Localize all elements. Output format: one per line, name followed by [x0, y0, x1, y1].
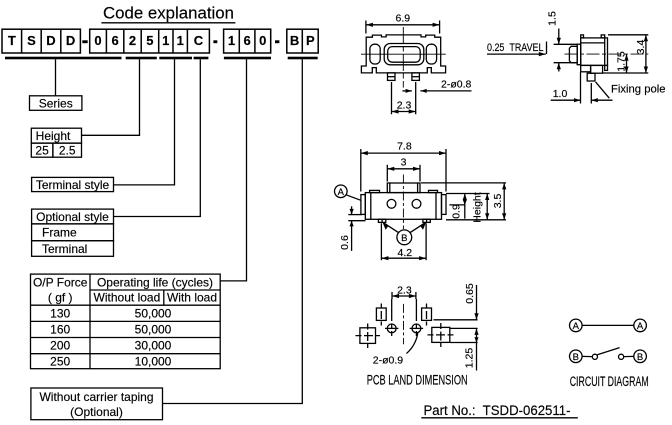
pcb hole vertical centerlines — [391, 299, 393, 336]
dimension 3.5 — [492, 183, 506, 220]
circuit switch lever — [597, 348, 619, 355]
svg-text:2-ø0.9: 2-ø0.9 — [373, 355, 404, 367]
svg-text:3: 3 — [401, 156, 407, 168]
dimension Height — [472, 192, 490, 222]
top view left ear — [370, 44, 380, 64]
operating life table — [31, 274, 221, 369]
dimension 0.65 — [464, 283, 479, 320]
svg-text:Series: Series — [39, 96, 73, 110]
svg-text:1: 1 — [177, 33, 184, 48]
circuit node A left — [570, 319, 583, 332]
part number — [421, 403, 578, 418]
svg-text:30,000: 30,000 — [135, 339, 172, 353]
svg-text:0.9: 0.9 — [450, 204, 462, 219]
svg-text:A: A — [637, 321, 644, 332]
circuit node B left — [570, 350, 583, 363]
front view left foot — [378, 219, 385, 222]
svg-text:1: 1 — [162, 33, 169, 48]
circuit node B right — [634, 350, 647, 363]
label Fixing pole — [596, 82, 666, 98]
underline bar taping — [288, 57, 318, 60]
dimension 0.9 — [450, 194, 467, 219]
svg-text:D: D — [66, 33, 75, 48]
circuit node A right — [634, 319, 647, 332]
top view center outer rounded rect — [384, 44, 424, 65]
svg-text:2: 2 — [129, 33, 136, 48]
label 0.25 TRAVEL with arrow — [487, 42, 547, 57]
svg-text:200: 200 — [50, 339, 70, 353]
svg-text:5: 5 — [146, 33, 153, 48]
top view center inner rounded rect — [388, 47, 421, 63]
pcb top left pad — [376, 304, 386, 326]
side view lid seam — [581, 42, 605, 44]
svg-text:6.9: 6.9 — [395, 12, 410, 24]
side view top tabs — [581, 35, 584, 38]
front view right wing — [442, 195, 447, 215]
label Terminal style — [32, 177, 114, 191]
svg-text:A: A — [573, 321, 580, 332]
dimension 2.3 pcb — [392, 284, 416, 299]
dimension 1.25 — [463, 328, 478, 370]
svg-text:T: T — [8, 33, 16, 48]
dimension 4.2 — [381, 223, 426, 260]
side view center line — [565, 53, 649, 55]
dimension 6.9 — [366, 12, 440, 33]
node B circle with leaders — [383, 222, 427, 245]
label Height — [31, 128, 81, 143]
pcb top right pad — [422, 304, 432, 326]
leader operating force — [220, 59, 246, 281]
svg-text:P: P — [306, 33, 315, 48]
code boxes group 160 — [224, 29, 271, 53]
side view body — [581, 38, 608, 66]
underline bar height — [126, 57, 157, 60]
dimension 3 — [387, 156, 420, 181]
label Terminal — [32, 241, 114, 257]
side view bottom block A — [581, 65, 591, 71]
svg-text:S: S — [27, 33, 36, 48]
svg-text:2.3: 2.3 — [397, 100, 412, 112]
dimension 7.8 — [361, 141, 446, 192]
side view button nub — [569, 46, 577, 62]
svg-text:Operating life (cycles): Operating life (cycles) — [97, 276, 213, 290]
front view body — [365, 193, 441, 220]
label 2-o0.9 with leader — [373, 333, 418, 367]
svg-text:Fixing pole: Fixing pole — [611, 83, 666, 95]
svg-text:( gf ): ( gf ) — [48, 291, 73, 305]
dimension 0.6 — [339, 206, 366, 251]
svg-text:D: D — [46, 33, 55, 48]
svg-text:Terminal: Terminal — [42, 242, 87, 256]
svg-text:25: 25 — [35, 144, 49, 158]
svg-text:0: 0 — [94, 33, 101, 48]
svg-text:7.8: 7.8 — [397, 141, 412, 153]
node A circle — [335, 185, 361, 200]
svg-text:A: A — [338, 187, 345, 198]
underline bar optional style — [194, 57, 209, 60]
svg-text:1.25: 1.25 — [463, 348, 475, 369]
pcb left hole — [385, 324, 398, 333]
circuit wire B right — [624, 355, 634, 357]
dash 2 — [213, 40, 217, 43]
svg-text:Frame: Frame — [42, 226, 77, 240]
svg-text:6: 6 — [111, 33, 118, 48]
dash 3 — [275, 40, 279, 43]
title Code explanation — [101, 5, 235, 23]
side view fixing pole — [587, 73, 595, 81]
pcb big left pad — [356, 324, 381, 349]
svg-text:3.4: 3.4 — [635, 40, 647, 55]
svg-text:0.6: 0.6 — [339, 235, 351, 250]
code boxes group TSDD — [2, 29, 80, 53]
label Optional style — [32, 209, 114, 224]
svg-text:1.5: 1.5 — [547, 11, 559, 26]
front view right foot — [423, 219, 430, 222]
pcb right hole — [410, 324, 423, 333]
svg-text:50,000: 50,000 — [135, 323, 172, 337]
svg-text:0.65: 0.65 — [464, 283, 476, 304]
svg-text:Without load: Without load — [94, 291, 161, 305]
svg-text:4.2: 4.2 — [397, 247, 412, 259]
svg-text:(Optional): (Optional) — [70, 405, 123, 419]
front view left rivet — [387, 199, 396, 208]
leader terminal style — [114, 59, 175, 185]
svg-text:B: B — [401, 233, 407, 244]
dimension 1.75 — [615, 51, 628, 73]
svg-text:B: B — [290, 33, 299, 48]
top view right leg — [412, 73, 420, 81]
top view right ear — [426, 44, 436, 64]
pcb center line — [403, 304, 405, 344]
front right extension lines — [421, 183, 506, 220]
label Without carrier taping — [31, 388, 163, 420]
svg-text:50,000: 50,000 — [135, 306, 172, 320]
svg-text:0.25 TRAVEL: 0.25 TRAVEL — [487, 42, 544, 54]
side view right bottom step — [605, 65, 608, 70]
svg-text:160: 160 — [50, 323, 70, 337]
svg-text:1.0: 1.0 — [553, 88, 568, 100]
svg-text:0: 0 — [259, 33, 266, 48]
code boxes group 062511C — [90, 29, 210, 53]
dash 1 — [82, 40, 87, 43]
leader series — [55, 59, 57, 96]
front view button — [387, 183, 420, 193]
circuit wire A — [582, 324, 634, 326]
svg-text:6: 6 — [243, 33, 250, 48]
svg-text:130: 130 — [50, 306, 70, 320]
side view bottom block B — [591, 65, 603, 73]
dimension 1.0 — [551, 72, 613, 104]
top view left leg — [388, 73, 396, 81]
svg-text:B: B — [637, 352, 643, 363]
front view left wing — [361, 195, 365, 215]
svg-text:Part No.: TSDD-062511-: Part No.: TSDD-062511- — [424, 403, 571, 418]
leader without carrier taping — [163, 59, 303, 403]
svg-text:Terminal style: Terminal style — [36, 178, 110, 192]
pcb big right pad — [428, 323, 455, 347]
top view body outline — [361, 35, 445, 73]
top view vertical centerline — [402, 27, 404, 88]
svg-text:250: 250 — [50, 354, 70, 368]
svg-text:10,000: 10,000 — [135, 354, 172, 368]
front view inner wall lines — [370, 193, 372, 220]
top view horizontal centerline — [361, 53, 446, 55]
svg-text:Height: Height — [36, 129, 71, 143]
svg-text:B: B — [573, 352, 579, 363]
code boxes group BP — [287, 29, 318, 53]
pcb right extension lines — [434, 320, 478, 343]
dimension 3.4 — [603, 35, 648, 73]
svg-text:2.3: 2.3 — [397, 284, 412, 296]
underline bar series — [5, 57, 122, 60]
svg-text:CIRCUIT DIAGRAM: CIRCUIT DIAGRAM — [570, 374, 649, 389]
label Series — [30, 96, 82, 111]
height cells 25 / 2.5 — [31, 143, 81, 158]
svg-text:Code explanation: Code explanation — [103, 5, 234, 23]
side view button plate — [577, 44, 581, 64]
svg-text:With load: With load — [167, 291, 217, 305]
front view center line — [402, 175, 404, 230]
svg-text:3.5: 3.5 — [492, 194, 504, 209]
svg-text:PCB LAND DIMENSION: PCB LAND DIMENSION — [367, 372, 468, 387]
front view right rivet — [412, 199, 421, 208]
svg-text:Optional style: Optional style — [36, 210, 109, 224]
svg-text:Without carrier taping: Without carrier taping — [39, 390, 153, 404]
leader optional style — [114, 59, 201, 216]
circuit wire B left — [582, 355, 592, 357]
svg-text:1.75: 1.75 — [615, 51, 627, 72]
underline bar terminal style — [159, 57, 192, 60]
leader height — [82, 59, 140, 135]
circuit contact left — [592, 354, 597, 359]
svg-text:1: 1 — [228, 33, 235, 48]
svg-text:O/P Force: O/P Force — [33, 276, 88, 290]
svg-text:Height: Height — [472, 192, 484, 222]
underline bar force — [224, 57, 271, 60]
front view top tabs — [370, 190, 380, 192]
dimension 2.3 top view — [392, 82, 416, 114]
svg-text:2.5: 2.5 — [59, 144, 76, 158]
dimension 1.5 — [547, 11, 578, 71]
dimension 2-o0.8 — [402, 79, 471, 93]
svg-text:C: C — [194, 33, 204, 48]
svg-text:2-ø0.8: 2-ø0.8 — [441, 79, 472, 91]
side view inner wall — [604, 38, 606, 66]
label Frame — [32, 224, 114, 241]
circuit contact right — [619, 354, 624, 359]
